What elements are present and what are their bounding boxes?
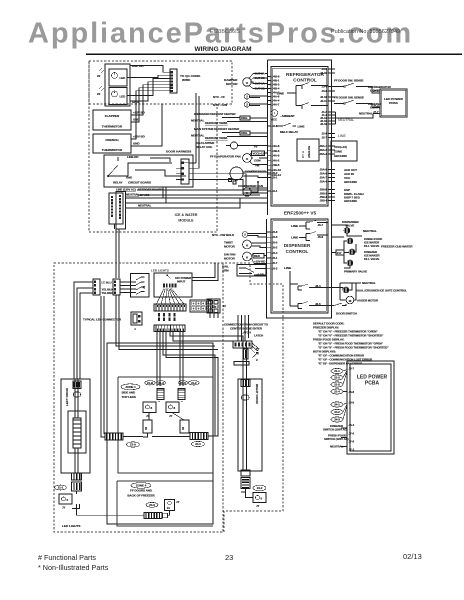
- lamp unit left door: [59, 494, 72, 504]
- svg-text:LINE: LINE: [338, 134, 346, 138]
- door riser wires left: [74, 282, 93, 379]
- lower strip connector: [154, 325, 185, 332]
- left harness connector 1: [93, 279, 100, 295]
- right door box: [238, 379, 262, 471]
- connector strips zone1: [157, 389, 164, 400]
- svg-text:MOTOR: MOTOR: [224, 257, 236, 261]
- svg-text:JY: JY: [62, 506, 66, 510]
- svg-text:J4B-5: J4B-5: [272, 163, 280, 167]
- module connector strip A: [109, 193, 123, 224]
- module drop wires: [163, 187, 166, 203]
- left door LED module: [68, 411, 86, 453]
- svg-text:EI23BC36IS: EI23BC36IS: [210, 29, 241, 35]
- svg-text:LED: LED: [120, 95, 127, 99]
- zone enclosure solid: [107, 343, 213, 524]
- svg-text:J6-4: J6-4: [315, 284, 321, 288]
- LED bar left: [143, 420, 152, 433]
- svg-text:ZONE 4: ZONE 4: [136, 484, 147, 488]
- svg-text:J5-8: J5-8: [272, 230, 278, 234]
- svg-text:2: 2: [246, 95, 248, 99]
- svg-text:22: 22: [97, 74, 101, 78]
- svg-text:Publication No: 5995627949: Publication No: 5995627949: [331, 29, 400, 35]
- svg-text:J4B-6: J4B-6: [272, 149, 280, 153]
- svg-text:ICE MAKER DEFROST HEATER: ICE MAKER DEFROST HEATER: [194, 112, 236, 116]
- svg-text:FLAPPER: FLAPPER: [105, 114, 120, 118]
- svg-text:J5-5: J5-5: [272, 240, 278, 244]
- svg-text:MELF RELAY: MELF RELAY: [280, 130, 298, 134]
- wire to LED power J7-8: [366, 87, 380, 94]
- svg-text:LED LIGHTS: LED LIGHTS: [151, 269, 169, 273]
- svg-text:ZONE: ZONE: [334, 150, 342, 154]
- wire LED1 to QC pin 2: [127, 75, 170, 77]
- svg-text:WIRING DIAGRAM: WIRING DIAGRAM: [194, 46, 251, 53]
- svg-text:J7-8: J7-8: [349, 440, 355, 444]
- module drop wires to doors: [116, 229, 119, 278]
- svg-text:ZONE 1: ZONE 1: [125, 385, 136, 389]
- svg-text:J7-1: J7-1: [349, 448, 355, 452]
- svg-text:THERMISTOR: THERMISTOR: [102, 125, 123, 129]
- svg-text:SIDE AND: SIDE AND: [122, 391, 136, 395]
- wires 12V input from right: [192, 263, 218, 281]
- inline connector 24-4: [190, 433, 208, 440]
- svg-text:24-2: 24-2: [334, 410, 340, 414]
- svg-text:J5B-4: J5B-4: [320, 199, 328, 203]
- svg-text:DEFROST TERM.: DEFROST TERM.: [205, 136, 228, 140]
- svg-text:AUGER MOTOR: AUGER MOTOR: [357, 299, 379, 303]
- svg-text:FILL VALVE: FILL VALVE: [364, 244, 379, 248]
- valve solenoid primary L5: [347, 260, 353, 266]
- relay K5: [298, 284, 328, 290]
- ovals 21-5 21-2: [178, 381, 187, 385]
- svg-text:KT A: KT A: [301, 150, 305, 158]
- svg-text:M: M: [349, 299, 352, 303]
- svg-text:BACK OF FREEZER: BACK OF FREEZER: [127, 493, 155, 497]
- svg-text:HSP BD: HSP BD: [132, 64, 144, 68]
- svg-text:LT. BLU: LT. BLU: [102, 281, 112, 285]
- dashed enclosure LED lights: [54, 263, 283, 532]
- J2 grid connector: [207, 299, 220, 313]
- svg-text:LINE: LINE: [291, 236, 298, 240]
- svg-text:J6-4: J6-4: [349, 423, 355, 427]
- svg-text:NTC - FF: NTC - FF: [213, 95, 225, 99]
- svg-text:LINE: LINE: [291, 224, 298, 228]
- LED driver C8 left: [143, 402, 156, 413]
- svg-text:ORG: ORG: [241, 116, 248, 120]
- resistor 217: [336, 250, 344, 255]
- svg-text:CONTROL: CONTROL: [286, 249, 309, 254]
- pin J2-1 ambient: [268, 125, 272, 127]
- svg-text:24-3: 24-3: [149, 503, 155, 507]
- dashed enclosure door LED harness: [89, 61, 232, 104]
- svg-text:21-1: 21-1: [58, 486, 64, 490]
- module connector strip B: [116, 192, 126, 230]
- wire HSP BD to QC pin 1: [130, 66, 170, 73]
- svg-text:24-3: 24-3: [334, 418, 340, 422]
- harness wires to control board: [126, 174, 268, 208]
- pin J2-1 condenser: [268, 190, 272, 192]
- ambient sensor: [271, 110, 277, 116]
- svg-text:J6-9: J6-9: [349, 401, 355, 405]
- svg-text:RIGHT DOOR: RIGHT DOOR: [255, 384, 259, 405]
- control board outer enclosure: [267, 60, 332, 318]
- svg-text:JY: JY: [176, 500, 180, 504]
- svg-text:M: M: [246, 157, 249, 161]
- svg-text:INPUT: INPUT: [177, 280, 186, 284]
- svg-text:J2-19: J2-19: [320, 122, 327, 126]
- wire french GND drop: [131, 104, 162, 146]
- svg-text:10: 10: [167, 506, 171, 510]
- LED driver C8 right: [166, 402, 179, 413]
- connector J-QC to board: [170, 69, 177, 93]
- svg-text:NEUTRAL: NEUTRAL: [362, 281, 376, 285]
- svg-text:NEUTRAL: NEUTRAL: [191, 134, 205, 138]
- svg-text:NTC - DW BOLD: NTC - DW BOLD: [212, 233, 235, 237]
- harness ovals 21-x: [331, 368, 343, 373]
- inline connector 21-A: [105, 433, 123, 440]
- wire runs door harness cross: [116, 295, 218, 350]
- svg-text:J5: J5: [213, 305, 217, 309]
- connector J5 pins dispenser: [267, 231, 272, 233]
- latch wires fan: [250, 343, 259, 353]
- svg-text:24-1: 24-1: [334, 403, 340, 407]
- svg-text:PRIMARY VALVE: PRIMARY VALVE: [344, 270, 367, 274]
- svg-text:J2-1: J2-1: [272, 189, 278, 193]
- svg-text:1: 1: [134, 327, 136, 331]
- svg-text:J5-1: J5-1: [272, 176, 278, 180]
- LED power PCBA lower U4: [347, 361, 394, 454]
- svg-text:RELAY COIL: RELAY COIL: [196, 145, 213, 149]
- svg-text:2: 2: [244, 233, 246, 237]
- latch bar connector: [234, 362, 249, 366]
- dispenser control board U2: [271, 219, 328, 313]
- inline connector left door: [72, 473, 82, 480]
- header rule: [86, 53, 462, 55]
- wire flapper GND to QC pin 6: [131, 88, 170, 122]
- svg-text:GROUND: GROUND: [334, 154, 348, 158]
- svg-text:+9 BD: +9 BD: [256, 273, 264, 277]
- svg-text:RED: RED: [254, 254, 260, 258]
- svg-text:COM: COM: [254, 159, 261, 163]
- relay K6: [298, 302, 328, 309]
- svg-text:21-A: 21-A: [130, 443, 137, 447]
- svg-text:M: M: [246, 244, 249, 248]
- auger motor M6: [346, 296, 354, 304]
- svg-text:FILL VALVE: FILL VALVE: [364, 257, 379, 261]
- svg-text:ICE & WATER: ICE & WATER: [175, 213, 198, 217]
- KT A antenna block: [297, 139, 319, 161]
- svg-text:M: M: [246, 81, 249, 85]
- svg-text:J4: J4: [142, 285, 146, 289]
- svg-text:8: 8: [174, 406, 176, 410]
- zone4 inline connector: [144, 513, 162, 519]
- LED connector strip: [154, 304, 186, 311]
- svg-text:TYPICAL LED CONNECTOR: TYPICAL LED CONNECTOR: [83, 318, 122, 322]
- svg-text:FR DOOR SW. SENSE: FR DOOR SW. SENSE: [334, 96, 364, 100]
- svg-text:J2-11: J2-11: [320, 99, 327, 103]
- svg-text:FF DOORS AND: FF DOORS AND: [130, 488, 153, 492]
- svg-text:GND: GND: [133, 142, 140, 146]
- svg-text:21-3: 21-3: [158, 381, 164, 385]
- flapper thermistor box: [93, 110, 131, 130]
- svg-text:217: 217: [337, 251, 342, 255]
- svg-text:DOOR SWITCH: DOOR SWITCH: [336, 312, 357, 316]
- svg-text:J5-2: J5-2: [272, 246, 278, 250]
- strip stub wire: [114, 224, 116, 229]
- wire LED2 to QC pin 3: [127, 79, 170, 96]
- svg-text:ANALOG: ANALOG: [307, 145, 311, 158]
- svg-text:2: 2: [256, 358, 258, 362]
- svg-text:DUAL /CRUSHED ICE GATE CONTROL: DUAL /CRUSHED ICE GATE CONTROL: [356, 289, 407, 293]
- svg-text:LINE: LINE: [284, 266, 291, 270]
- svg-text:CONTROL: CONTROL: [293, 77, 317, 83]
- french thermistor box: [93, 134, 131, 153]
- wires relay box to connector: [176, 163, 193, 180]
- svg-text:DISPENSER: DISPENSER: [284, 243, 311, 248]
- zone 4 label: [131, 483, 151, 489]
- svg-text:LATCH: LATCH: [241, 331, 250, 335]
- svg-text:5: 5: [67, 498, 69, 502]
- LED lamp assembly box: [105, 64, 130, 106]
- pins J5-2 J5-1 compressor: [268, 172, 272, 174]
- left door wires: [75, 379, 78, 473]
- svg-text:F9: F9: [254, 145, 258, 149]
- zone 1 label: [121, 384, 140, 390]
- riser wires doors top: [157, 332, 183, 387]
- refrigerator control board U1: [271, 67, 328, 207]
- svg-text:FF DOOR SW. SENSE: FF DOOR SW. SENSE: [334, 79, 364, 83]
- header pins: [163, 284, 165, 288]
- oval 21-1: [55, 485, 67, 490]
- svg-text:J8A-3: J8A-3: [320, 152, 328, 156]
- svg-text:21-5: 21-5: [334, 383, 340, 387]
- dashed divider door zone: [222, 263, 224, 532]
- svg-text:J6-8: J6-8: [318, 235, 324, 239]
- wires to bus: [72, 491, 77, 509]
- svg-text:2: 2: [246, 103, 248, 107]
- svg-text:24-2: 24-2: [257, 486, 263, 490]
- wires dispenser to latch connector: [238, 315, 249, 341]
- zone4 wires: [77, 511, 170, 516]
- door harness connector: [181, 159, 189, 184]
- svg-text:LED LIGHTS: LED LIGHTS: [62, 524, 80, 528]
- svg-text:8: 8: [151, 406, 153, 410]
- relay contact: [108, 157, 128, 176]
- svg-text:MAIN SYSTEM DEFROST HEATER: MAIN SYSTEM DEFROST HEATER: [194, 127, 240, 131]
- svg-text:J7-8: J7-8: [373, 89, 379, 93]
- svg-text:MODULE: MODULE: [178, 219, 194, 223]
- svg-text:J3-4: J3-4: [322, 85, 328, 89]
- right door wires: [243, 371, 247, 470]
- relay circuit board box: [104, 155, 193, 187]
- svg-text:MOTOR: MOTOR: [224, 245, 236, 249]
- svg-text:J6-5: J6-5: [315, 302, 321, 306]
- svg-text:PCBA: PCBA: [389, 101, 399, 105]
- svg-text:DOOR HARNESS: DOOR HARNESS: [166, 150, 191, 154]
- svg-text:J5-1: J5-1: [272, 256, 278, 260]
- valve solenoid L3: [347, 238, 353, 244]
- svg-text:J6-7: J6-7: [318, 223, 324, 227]
- svg-text:+12V BD: +12V BD: [254, 260, 265, 264]
- svg-text:JY: JY: [169, 414, 173, 418]
- feed wires conn2 to J1: [120, 282, 136, 293]
- svg-text:LINE (120V AC): LINE (120V AC): [116, 188, 136, 192]
- svg-text:NEUTRAL: NEUTRAL: [138, 204, 152, 208]
- svg-text:DEFROST BOARD: DEFROST BOARD: [138, 188, 162, 192]
- latch coil symbol: [252, 353, 258, 359]
- svg-text:GND: GND: [126, 176, 132, 180]
- left harness connector 2: [113, 279, 120, 295]
- svg-text:M: M: [246, 256, 249, 260]
- svg-text:NTO - FZN: NTO - FZN: [213, 103, 227, 107]
- door switch: [328, 303, 346, 306]
- svg-text:COMPRESSOR: COMPRESSOR: [245, 170, 267, 174]
- svg-text:FREEZER CUB WATER: FREEZER CUB WATER: [381, 245, 413, 249]
- svg-text:+12V BD: +12V BD: [133, 135, 146, 139]
- wire french +12V to QC pin 7: [131, 91, 170, 139]
- svg-text:ORG: ORG: [241, 131, 248, 135]
- zone1 wires: [143, 401, 190, 437]
- svg-text:J5-6: J5-6: [272, 235, 278, 239]
- svg-text:5: 5: [261, 497, 263, 501]
- svg-text:DEFROST TERM.: DEFROST TERM.: [205, 121, 228, 125]
- connector J4A pins left lower: [268, 145, 272, 147]
- valve solenoid L2: [332, 225, 348, 228]
- harness ovals 24-x: [331, 402, 343, 407]
- melf relay K2: [276, 123, 296, 126]
- svg-text:J7-4: J7-4: [373, 104, 379, 108]
- bus wires bottom: [72, 504, 80, 515]
- svg-text:VCC(+12): VCC(+12): [334, 145, 347, 149]
- zone 4 box: [117, 481, 213, 526]
- latch connector: [233, 341, 252, 348]
- svg-text:22: 22: [97, 92, 101, 96]
- svg-text:NEUTRAL: NEUTRAL: [363, 229, 377, 233]
- svg-text:21-2: 21-2: [191, 381, 197, 385]
- svg-text:J5-4: J5-4: [272, 251, 278, 255]
- svg-text:VM: VM: [255, 164, 260, 168]
- svg-text:LINE RD: LINE RD: [127, 155, 139, 159]
- svg-text:J6-8: J6-8: [349, 390, 355, 394]
- LED 1: [112, 73, 118, 79]
- LED power PCBA upper U3: [380, 89, 407, 117]
- svg-text:YEL/RED: YEL/RED: [102, 291, 114, 295]
- svg-text:J2-7: J2-7: [322, 136, 328, 140]
- lamp unit right door: [253, 493, 266, 503]
- 12V power input box: [154, 273, 192, 297]
- svg-text:02/13: 02/13: [403, 552, 422, 561]
- svg-text:TOP LEDS: TOP LEDS: [122, 395, 136, 399]
- svg-text:21-B: 21-B: [147, 381, 153, 385]
- riser wires to 21-A: [101, 296, 105, 437]
- valve solenoid L4: [349, 249, 355, 255]
- svg-text:W/BD: W/BD: [182, 78, 191, 82]
- wire flapper +12V to QC pin 5: [131, 85, 170, 115]
- typical connector symbol: [131, 312, 142, 325]
- svg-text:J6-7: J6-7: [349, 367, 355, 371]
- svg-text:VCC: VCC: [271, 118, 278, 122]
- svg-text:21-4: 21-4: [334, 390, 340, 394]
- VCC zone ground box: [331, 141, 357, 161]
- wire GND to QC pin 4: [130, 82, 170, 101]
- wire fan: [167, 275, 171, 279]
- dashed enclosure ice and water module: [89, 61, 217, 232]
- zone 1 dashed box: [118, 377, 213, 473]
- svg-text:NEUTRAL: NEUTRAL: [359, 112, 373, 116]
- svg-text:10: 10: [144, 426, 148, 430]
- grid connector J5: [190, 300, 211, 312]
- svg-text:J4A-2: J4A-2: [272, 158, 280, 162]
- feed wires to right door: [170, 332, 247, 372]
- left door box: [61, 379, 90, 473]
- left door top connector: [73, 381, 81, 389]
- svg-text:24-1: 24-1: [195, 442, 201, 446]
- svg-text:LEFT DOOR: LEFT DOOR: [65, 387, 69, 406]
- svg-text:LINE: LINE: [298, 125, 305, 129]
- svg-text:J4A-7: J4A-7: [272, 103, 280, 107]
- svg-text:VALVE: VALVE: [345, 224, 354, 228]
- svg-text:21-1: 21-1: [334, 369, 340, 373]
- svg-text:J5A-4: J5A-4: [320, 180, 328, 184]
- svg-text:NEUTRAL: NEUTRAL: [191, 119, 205, 123]
- LED bar right: [180, 420, 189, 433]
- svg-text:J5-7: J5-7: [272, 261, 278, 265]
- svg-text:10: 10: [181, 426, 185, 430]
- svg-text:FF EVAPORATOR FAN: FF EVAPORATOR FAN: [210, 155, 241, 159]
- svg-text:PCBA: PCBA: [365, 381, 380, 387]
- wire stubs J2: [210, 313, 218, 318]
- latch vertical connector: [244, 349, 249, 359]
- internal traces: [128, 158, 186, 176]
- right door connectors: [241, 380, 250, 387]
- svg-text:GND: GND: [133, 118, 140, 122]
- svg-text:J3-10: J3-10: [320, 71, 327, 75]
- svg-text:GROUND: GROUND: [344, 199, 358, 203]
- svg-text:NEUTRAL: NEUTRAL: [338, 118, 354, 122]
- svg-text:REFRIGERATOR: REFRIGERATOR: [286, 72, 324, 78]
- oval 24-3: [146, 502, 158, 507]
- svg-text:J7-6: J7-6: [349, 432, 355, 436]
- svg-text:CIRCUIT BOARD: CIRCUIT BOARD: [128, 181, 152, 185]
- svg-text:FRENCH: FRENCH: [106, 138, 120, 142]
- svg-text:J7-7: J7-7: [373, 110, 379, 114]
- svg-text:LATCH: LATCH: [254, 334, 263, 338]
- svg-text:"E" DF - DISPENSER FAN ERROR: "E" DF - DISPENSER FAN ERROR: [318, 362, 363, 366]
- svg-text:ERF2500++ V5: ERF2500++ V5: [284, 211, 317, 216]
- svg-text:GROUND: GROUND: [344, 180, 358, 184]
- svg-text:MOTOR: MOTOR: [226, 82, 238, 86]
- svg-text:+12V BD: +12V BD: [133, 111, 146, 115]
- oval wires: [343, 370, 347, 420]
- oval 24-2: [253, 485, 266, 491]
- riser wires right of zone1: [163, 332, 218, 437]
- svg-text:J4A-9: J4A-9: [272, 154, 280, 158]
- svg-text:J3-8: J3-8: [322, 89, 328, 93]
- gate solenoid L6: [343, 287, 349, 293]
- svg-text:J4A-8: J4A-8: [272, 144, 280, 148]
- pin pairs below strip: [158, 313, 160, 316]
- ovals 21-B 21-3: [145, 381, 156, 385]
- svg-text:RELAY: RELAY: [113, 181, 123, 185]
- svg-text:J5-2: J5-2: [272, 171, 278, 175]
- svg-text:LINE: LINE: [277, 92, 284, 96]
- svg-text:CONDENSER FAN: CONDENSER FAN: [238, 184, 263, 188]
- svg-text:LED: LED: [120, 76, 127, 80]
- svg-text:21-2: 21-2: [334, 376, 340, 380]
- LED 2: [112, 91, 118, 97]
- svg-text:* Non-Illustrated Parts: * Non-Illustrated Parts: [38, 563, 109, 572]
- svg-text:# Functional Parts: # Functional Parts: [38, 553, 96, 562]
- svg-text:THERMISTOR: THERMISTOR: [102, 148, 123, 152]
